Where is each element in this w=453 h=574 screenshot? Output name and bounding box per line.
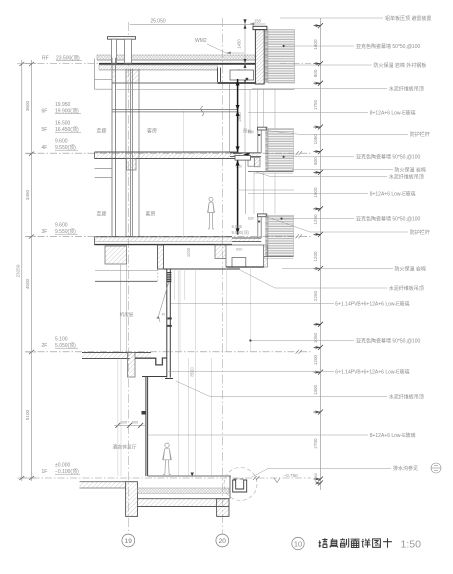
svg-text:3600: 3600	[25, 100, 30, 111]
svg-text:600: 600	[236, 248, 242, 252]
pavement outside	[80, 482, 126, 488]
diagonal brace	[158, 282, 168, 322]
arrow at 4F slab edge	[243, 152, 250, 156]
svg-text:1200: 1200	[313, 251, 318, 262]
beam below 3F slab (corridor)	[105, 246, 127, 264]
svg-text:5.100: 5.100	[55, 337, 68, 343]
parapet body	[255, 30, 264, 84]
title text 墙身剖面详图十 (drawn strokes)	[319, 538, 392, 547]
railing cap 4F	[258, 127, 267, 130]
dim arrows (solid) right	[315, 24, 321, 485]
ceiling soffit right of beam	[164, 268, 241, 270]
svg-text:2F: 2F	[42, 343, 48, 349]
3F balcony slab	[232, 238, 261, 242]
annotation texts	[335, 15, 431, 472]
3F main slab	[95, 237, 233, 245]
drop beam at 3F slab edge	[158, 245, 164, 269]
detail ref circle	[431, 463, 441, 473]
6F slab	[112, 82, 218, 84]
svg-text:亚克色陶瓷幕墙 50*50,@100: 亚克色陶瓷幕墙 50*50,@100	[356, 43, 420, 50]
footing right	[217, 499, 229, 517]
svg-text:300: 300	[314, 473, 318, 479]
svg-text:1:50: 1:50	[401, 539, 422, 551]
svg-text:RF: RF	[42, 56, 49, 62]
rooftop stack cap	[108, 37, 136, 40]
svg-text:亚克色陶瓷幕墙 50*50,@100: 亚克色陶瓷幕墙 50*50,@100	[356, 215, 420, 222]
overall dim line (23250)	[22, 60, 32, 481]
thin verticals zone D	[178, 269, 211, 476]
footing left	[126, 482, 138, 517]
human figure 1F	[163, 443, 172, 474]
gutter lip	[218, 68, 221, 83]
6F ceiling line	[116, 88, 217, 90]
WM2 leader	[207, 44, 244, 53]
剖	[340, 538, 349, 547]
svg-text:防火保温 岩棉 外衬钢板: 防火保温 岩棉 外衬钢板	[374, 62, 427, 69]
1F curtain wall mullion	[146, 377, 148, 477]
svg-text:9.600: 9.600	[55, 223, 68, 229]
duct wall	[126, 69, 139, 237]
leader 吊顶 4F	[254, 171, 387, 176]
eave line 2	[95, 88, 113, 90]
duct wall hatch at roof	[126, 70, 139, 83]
soffit 3F balcony	[248, 256, 293, 258]
svg-text:9.600: 9.600	[55, 139, 68, 145]
railing cap 3F	[258, 214, 267, 217]
svg-text:排水沟参见: 排水沟参见	[393, 465, 418, 472]
svg-text:2700: 2700	[313, 438, 318, 449]
head bottom line	[142, 376, 167, 378]
svg-text:4F: 4F	[42, 145, 48, 151]
wall W1 hatch at roof	[112, 70, 116, 83]
身	[330, 538, 338, 547]
roof left edge	[94, 59, 96, 90]
interior dim line (black) zone A	[237, 79, 239, 153]
svg-text:1200: 1200	[313, 354, 318, 365]
svg-text:600: 600	[132, 421, 138, 425]
3F window head box	[226, 245, 264, 267]
head box bottom dark	[226, 266, 264, 268]
svg-text:6+1.14PVB+6+12A+6 Low-E玻璃: 6+1.14PVB+6+12A+6 Low-E玻璃	[335, 368, 409, 375]
svg-text:3450: 3450	[25, 189, 30, 200]
svg-text:水泥纤维板吊顶: 水泥纤维板吊顶	[389, 86, 424, 93]
面	[351, 539, 360, 547]
svg-text:1300: 1300	[313, 384, 318, 395]
head box cove	[232, 258, 246, 268]
svg-text:25.050: 25.050	[150, 18, 166, 24]
svg-text:23250: 23250	[16, 264, 21, 277]
railing post 4F	[258, 130, 261, 153]
4F level line	[25, 152, 311, 154]
svg-text:6F: 6F	[42, 109, 48, 115]
tick marks on 4F/3F/2F level lines	[296, 151, 303, 354]
zone B railing glass lines	[254, 171, 275, 214]
svg-text:防火保温 岩棉: 防火保温 岩棉	[395, 166, 426, 173]
图	[373, 539, 381, 547]
svg-text:9.585: 9.585	[232, 224, 243, 229]
svg-text:亚克色陶瓷幕墙 50*50,@100: 亚克色陶瓷幕墙 50*50,@100	[356, 154, 420, 161]
svg-text:800: 800	[313, 69, 318, 77]
grid bubble 19	[122, 534, 135, 547]
svg-text:9.500(顶): 9.500(顶)	[232, 230, 250, 236]
dim ticks right	[314, 23, 324, 485]
leader 防火保温 4F	[292, 169, 393, 171]
window head lines left wall	[95, 168, 113, 170]
machine room wall	[121, 264, 127, 352]
4F main slab	[95, 152, 238, 159]
十	[383, 538, 392, 547]
roof structural slab (dark)	[99, 63, 255, 65]
leader 亚克 4F	[284, 156, 354, 158]
tick marks on level line	[253, 476, 260, 480]
level arrow 1F	[191, 473, 194, 477]
svg-text:2250: 2250	[313, 290, 318, 301]
2F head channel	[135, 358, 167, 365]
3F window head hatched curb	[215, 245, 230, 259]
svg-text:150: 150	[254, 18, 262, 23]
dim foot at 4F slab	[233, 152, 242, 154]
grid line 20	[221, 18, 223, 535]
svg-text:1450: 1450	[237, 39, 242, 49]
drain channel	[233, 480, 247, 492]
leader 防火保温 3F	[282, 268, 393, 270]
leader 排水沟	[252, 469, 391, 478]
4F head box below slab	[248, 158, 254, 167]
leader 吊顶 3F	[240, 270, 387, 288]
600 600 dimension	[115, 424, 147, 426]
leader dots	[249, 45, 284, 342]
anchor strip	[264, 30, 268, 83]
svg-text:1050: 1050	[313, 134, 318, 145]
anchor strip 4F	[265, 127, 268, 171]
svg-text:1750: 1750	[313, 99, 318, 110]
sill box below 4F slab	[235, 156, 251, 161]
墙	[319, 538, 328, 547]
transom line	[238, 189, 295, 191]
rooftop stack posts	[112, 39, 117, 63]
RF level line	[25, 62, 112, 64]
5F slab	[112, 109, 238, 112]
recessed face lines below box	[226, 267, 250, 352]
leader 亚克 RF	[284, 45, 354, 47]
leader 玻璃 2F	[166, 371, 334, 373]
svg-text:20: 20	[219, 538, 227, 545]
svg-text:酒店休息厅: 酒店休息厅	[113, 444, 137, 451]
level mark -0.750	[274, 478, 280, 483]
leader 玻璃 4F	[248, 193, 368, 195]
svg-text:防护: 防护	[248, 129, 254, 134]
roof insulation hatch	[99, 65, 218, 70]
svg-text:防火保温 岩棉: 防火保温 岩棉	[395, 265, 426, 272]
bracket mid 2	[167, 325, 172, 327]
interior dim line (black) zone B	[237, 159, 239, 235]
2F slab	[82, 353, 151, 359]
svg-text:1800: 1800	[313, 187, 318, 198]
cladding 4F	[268, 129, 293, 172]
svg-text:走廊: 走廊	[96, 211, 106, 218]
cladding 3F	[268, 215, 293, 256]
interior structural slab	[138, 499, 230, 507]
svg-text:铝单板压顶 避雷装置: 铝单板压顶 避雷装置	[385, 15, 431, 22]
svg-text:5100: 5100	[25, 409, 30, 420]
eave line 1	[95, 78, 113, 80]
svg-text:8+12A+6 Low-E玻璃: 8+12A+6 Low-E玻璃	[370, 190, 416, 197]
gutter trough	[230, 70, 254, 80]
leader 玻璃 5F	[248, 112, 368, 114]
svg-text:3F: 3F	[42, 229, 48, 235]
dim extension stubs	[17, 64, 36, 479]
zone A railing glass lines	[250, 89, 275, 128]
svg-text:水泥纤维板吊顶: 水泥纤维板吊顶	[389, 173, 424, 180]
svg-text:机房层: 机房层	[120, 311, 134, 318]
level dash-dot lines	[20, 63, 311, 478]
dim values right	[313, 39, 318, 479]
mullion bracket	[142, 411, 146, 415]
svg-text:45: 45	[162, 313, 166, 317]
dim ticks left	[19, 62, 34, 480]
25.050 parapet level line	[130, 23, 251, 25]
svg-text:走廊: 走廊	[96, 128, 106, 135]
soffit under parapet	[218, 88, 295, 90]
dashed connector	[157, 269, 159, 282]
interior screed band	[138, 488, 230, 493]
dim line right	[320, 18, 322, 490]
thin verticals zone C	[174, 269, 195, 476]
详	[362, 539, 371, 548]
parapet cap	[253, 26, 267, 29]
svg-text:800: 800	[313, 157, 318, 165]
2F slab hatch block	[128, 353, 136, 378]
svg-text:1F: 1F	[42, 469, 48, 475]
human figure 3F	[208, 197, 215, 229]
leader 铝单板压顶	[280, 17, 383, 19]
zone A glass line	[229, 84, 231, 152]
svg-text:1250: 1250	[313, 214, 318, 225]
svg-text:5F: 5F	[42, 127, 48, 133]
svg-text:客房: 客房	[147, 128, 157, 135]
grid line 19	[127, 22, 129, 535]
3F level line	[25, 235, 311, 237]
leader 吊顶 2F	[176, 381, 387, 397]
1F interior floor line	[148, 475, 231, 477]
post anchor 3F	[258, 221, 260, 223]
roof finish hatch band	[97, 55, 255, 60]
floor level labels	[42, 56, 80, 476]
railing post 3F	[258, 217, 261, 238]
svg-text:6+1.14PVB+6+12A+6 Low-E玻璃: 6+1.14PVB+6+12A+6 Low-E玻璃	[335, 300, 409, 307]
svg-text:8+12A+6 Low-E玻璃: 8+12A+6 Low-E玻璃	[370, 109, 416, 116]
svg-text:10: 10	[294, 539, 302, 548]
svg-text:−0.750: −0.750	[284, 473, 299, 478]
title number circle	[292, 537, 304, 549]
drain detail circle (dashed)	[224, 468, 257, 501]
anchor strip 3F	[265, 214, 268, 257]
parapet dim line 1450	[244, 24, 246, 153]
25.050 arrow	[243, 19, 246, 24]
svg-text:防护栏杆: 防护栏杆	[410, 229, 430, 236]
leader 防护栏杆 3F	[266, 217, 408, 233]
curtain wall anchor stack	[167, 272, 171, 282]
corridor ceiling lines	[95, 270, 158, 272]
wall W1 (corridor wall)	[112, 58, 116, 237]
svg-text:1050: 1050	[186, 247, 191, 257]
bracket mid 1	[167, 318, 171, 320]
leader 防护栏杆 4F	[266, 131, 408, 135]
gutter bottom	[218, 82, 256, 84]
cladding block RF	[268, 30, 295, 83]
post anchor 4F	[258, 134, 260, 136]
1F level line	[20, 477, 311, 479]
break mark on 5F slab	[201, 106, 204, 116]
svg-text:16.500: 16.500	[55, 121, 71, 127]
svg-text:水泥纤维板吊顶: 水泥纤维板吊顶	[389, 393, 424, 400]
svg-text:1050: 1050	[313, 332, 318, 343]
duct beam below 4F slab	[127, 159, 137, 171]
roof membrane line	[97, 60, 255, 62]
leader 玻璃 3F	[171, 303, 334, 305]
2F level line	[25, 351, 311, 353]
svg-text:WM2: WM2	[195, 38, 207, 44]
4F head hatch block	[254, 158, 260, 167]
grid bubble 20	[216, 534, 229, 547]
4F balcony slab	[230, 153, 261, 157]
svg-text:1600: 1600	[313, 39, 318, 50]
svg-text:4500: 4500	[25, 278, 30, 289]
soffit 4F balcony	[248, 170, 293, 172]
slab right end	[229, 476, 231, 499]
faint interior line	[182, 111, 184, 237]
drain grate marks	[234, 478, 244, 480]
leader 防火保温 RF	[292, 64, 372, 66]
svg-text:600: 600	[121, 421, 127, 425]
svg-text:客房: 客房	[145, 211, 155, 218]
leader 玻璃 1F	[149, 434, 369, 436]
leader 吊顶 RF	[252, 88, 387, 90]
svg-text:防护栏杆: 防护栏杆	[410, 131, 430, 138]
svg-text:19: 19	[125, 538, 133, 545]
leader 亚克 2F	[250, 340, 354, 342]
small dark anchor	[246, 78, 249, 80]
leader 亚克 3F	[282, 218, 355, 220]
svg-text:8+12A+6 Low-E玻璃: 8+12A+6 Low-E玻璃	[370, 432, 416, 439]
svg-text:防护: 防护	[248, 216, 254, 221]
3F head hatch right of box	[264, 245, 268, 267]
svg-text:19.950: 19.950	[55, 102, 71, 108]
canopy column lines	[118, 359, 121, 477]
svg-text:亚克色陶瓷幕墙 50*50,@100: 亚克色陶瓷幕墙 50*50,@100	[356, 337, 420, 344]
2F-3F curtain wall	[167, 269, 171, 378]
svg-text:水泥纤维板吊顶: 水泥纤维板吊顶	[389, 285, 424, 292]
level label underlines	[55, 61, 82, 475]
svg-text:±0.000: ±0.000	[55, 463, 70, 469]
curtain wall foot	[165, 378, 173, 380]
roof ceiling line	[99, 69, 218, 71]
